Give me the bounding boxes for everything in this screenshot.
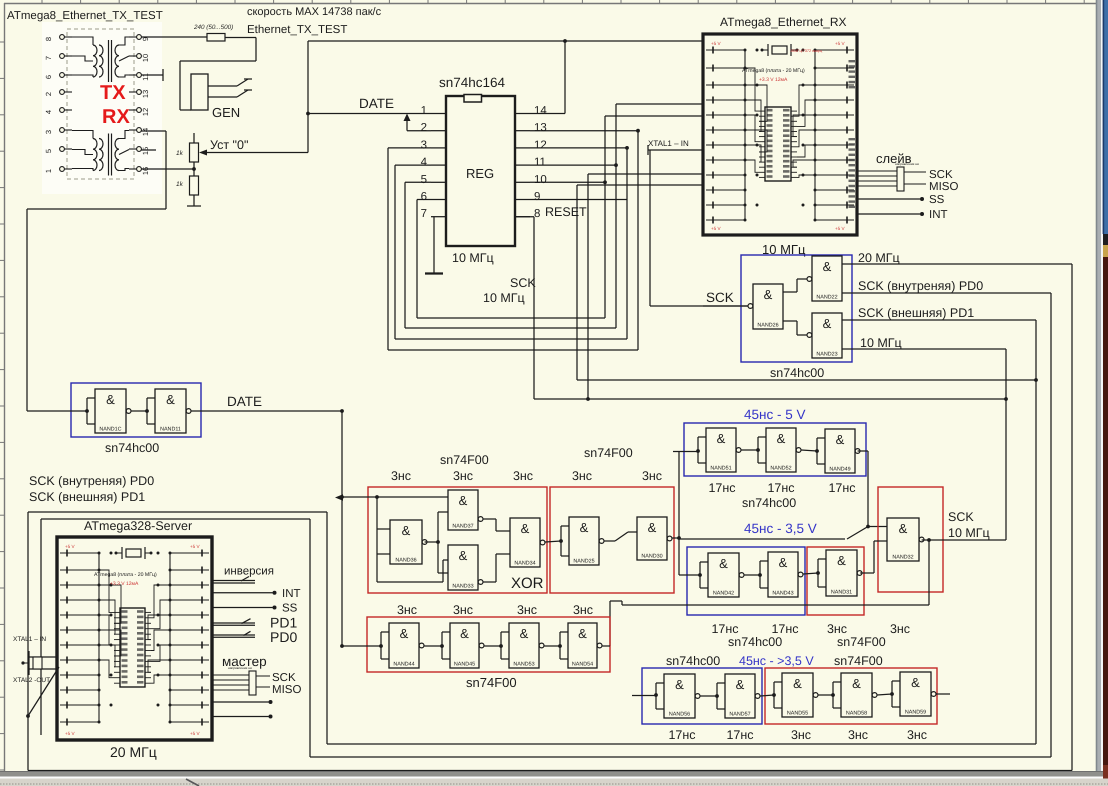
XOR bottom feedback wire [377, 560, 448, 582]
node loop 4 tap [603, 180, 607, 184]
wire node row 702 [212, 701, 269, 703]
node DATE branch [340, 409, 344, 413]
generator GEN [191, 74, 208, 110]
NAND37 output bubble [478, 517, 483, 522]
svg-text:INT: INT [929, 209, 948, 221]
svg-text:3нс: 3нс [572, 469, 592, 483]
wire 10MHz output [842, 349, 1006, 540]
svg-text:REG: REG [466, 166, 494, 181]
nand gate NAND25 [569, 517, 599, 565]
SPI connector J1 [857, 167, 926, 191]
svg-text:&: & [578, 626, 587, 641]
module box bottom red [765, 668, 937, 724]
wire into NAND44 [342, 645, 381, 647]
nand gate NAND26 [753, 284, 783, 329]
svg-text:RX: RX [102, 106, 130, 128]
wire into NAND42 [679, 574, 700, 576]
svg-text:sn74F00: sn74F00 [466, 675, 517, 690]
NAND45 input tie [442, 631, 450, 633]
wire NAND52 to NAND49 [801, 450, 817, 451]
wire 45-53 [484, 645, 501, 647]
wire resistor to GEN [180, 38, 256, 111]
GEN switch output 1 [208, 79, 252, 86]
NAND51 input tie [698, 436, 706, 438]
svg-text:NAND59: NAND59 [905, 710, 926, 716]
wire 20MHz output [842, 264, 1072, 771]
svg-text:&: & [459, 493, 468, 508]
svg-text:+5 V: +5 V [835, 226, 846, 231]
module box bottom blue [642, 668, 762, 724]
node loop 1 tap [636, 129, 640, 133]
svg-text:&: & [675, 677, 684, 692]
svg-text:&: & [106, 392, 115, 407]
svg-text:XTAL1 – IN: XTAL1 – IN [13, 636, 46, 643]
svg-text:+5 V: +5 V [711, 41, 722, 46]
wire crossbar y399 [534, 398, 1006, 400]
transformer RX windings [72, 131, 129, 176]
node crossbar y399 [1004, 397, 1008, 401]
svg-text:3: 3 [44, 130, 53, 134]
svg-text:3нс: 3нс [642, 469, 662, 483]
IC U1 sn74hc164 shift register [439, 75, 515, 265]
svg-text:NAND53: NAND53 [513, 662, 534, 668]
resistor R3 1k [187, 169, 201, 206]
routing loop PD0 inner [41, 519, 310, 757]
svg-text:NAND58: NAND58 [846, 711, 867, 717]
wire PD0 switch [212, 631, 255, 637]
svg-text:NAND32: NAND32 [892, 555, 913, 561]
svg-text:направление на: направление на [228, 666, 252, 670]
svg-text:&: & [520, 626, 529, 641]
wire DATE down to XOR and F00 row [341, 411, 343, 646]
wire NAND34 to NAND25 [545, 541, 561, 542]
wire NAND37 to NAND34 [483, 519, 510, 531]
svg-text:NAND43: NAND43 [772, 591, 793, 597]
svg-text:&: & [836, 432, 845, 447]
svg-text:&: & [899, 521, 908, 536]
NAND26 input bubble [748, 304, 753, 309]
nand gate NAND53 [509, 623, 539, 668]
wire NAND33 to NAND34 [483, 554, 510, 582]
svg-text:SCK (внешняя) PD1: SCK (внешняя) PD1 [858, 306, 974, 320]
svg-text:&: & [521, 521, 530, 536]
svg-text:SS: SS [929, 194, 945, 206]
svg-text:+5 V: +5 V [190, 731, 201, 736]
svg-text:sn74F00: sn74F00 [440, 453, 489, 467]
svg-text:инверсия: инверсия [224, 566, 274, 578]
svg-text:sn74hc00: sn74hc00 [742, 496, 796, 510]
svg-text:ATmega328-Server: ATmega328-Server [84, 519, 192, 533]
NAND52 input tie [758, 436, 766, 438]
svg-text:NAND56: NAND56 [669, 712, 690, 718]
svg-text:sn74hc00: sn74hc00 [666, 654, 720, 668]
wire 3.5V feed row [679, 538, 845, 540]
nand gate NAND42 [708, 553, 739, 597]
svg-text:NAND54: NAND54 [572, 662, 593, 668]
svg-text:4: 4 [421, 157, 428, 169]
wire into NAND1C [27, 410, 87, 412]
NAND25 input tie [561, 525, 569, 527]
nand gate NAND55 [782, 673, 813, 717]
svg-text:sn74hc164: sn74hc164 [439, 75, 506, 90]
GEN switch output 2 [208, 90, 252, 97]
svg-text:3нс: 3нс [890, 622, 910, 636]
wiper arrow wire [199, 150, 308, 156]
svg-text:PD0: PD0 [270, 629, 297, 645]
wire into NAND51 [673, 451, 698, 453]
nand gate NAND44 [389, 623, 419, 668]
svg-text:7: 7 [421, 208, 427, 220]
svg-text:NAND31: NAND31 [831, 590, 852, 596]
svg-text:15: 15 [141, 147, 150, 155]
svg-text:7: 7 [44, 56, 53, 60]
IC U3 ATmega328 MCU internals [60, 544, 209, 736]
svg-text:RESET: RESET [545, 205, 587, 219]
svg-text:NAND11: NAND11 [160, 427, 181, 433]
svg-text:11: 11 [141, 73, 150, 81]
svg-text:&: & [460, 626, 469, 641]
svg-text:XTAL2 -OUT: XTAL2 -OUT [13, 677, 50, 684]
wire NAND31 out to NAND32 [860, 541, 887, 573]
NAND31 input tie [818, 558, 826, 560]
svg-text:17нс: 17нс [767, 481, 794, 495]
ground below U1 [425, 217, 443, 274]
svg-text:&: & [764, 287, 773, 302]
feedback loop wire 2 (U1 out to in) [395, 148, 627, 339]
svg-text:NAND44: NAND44 [393, 662, 414, 668]
nand gate NAND32 [887, 518, 919, 561]
svg-text:SCK (внутреняя) PD0: SCK (внутреняя) PD0 [29, 474, 154, 488]
svg-text:17нс: 17нс [771, 622, 798, 636]
svg-text:NAND26: NAND26 [757, 323, 778, 329]
svg-text:12: 12 [534, 139, 547, 151]
svg-text:Ethernet_TX_TEST: Ethernet_TX_TEST [247, 24, 347, 36]
svg-text:2: 2 [44, 92, 53, 96]
svg-text:17нс: 17нс [711, 622, 738, 636]
wire into NAND56 [632, 695, 656, 697]
svg-text:10: 10 [141, 54, 150, 62]
module box 45ns-5V (blue) [684, 423, 866, 476]
svg-text:10 МГц: 10 МГц [483, 291, 525, 305]
svg-text:45нс - 5 V: 45нс - 5 V [744, 407, 805, 422]
wire NAND25 to NAND30 diagonal [604, 532, 637, 541]
svg-text:NAND23: NAND23 [816, 352, 837, 358]
NAND43 input tie [760, 560, 768, 562]
wire INT out [212, 592, 273, 594]
svg-text:3нс: 3нс [827, 622, 847, 636]
svg-text:NAND34: NAND34 [514, 561, 535, 567]
NAND49 input tie [817, 437, 825, 439]
svg-text:GEN: GEN [212, 105, 240, 120]
svg-text:8: 8 [44, 37, 53, 41]
module ATmega328-Server outer box [57, 537, 212, 740]
nand gate NAND56 [664, 674, 695, 718]
wire RX pin row to DATE chain (left route) [27, 131, 166, 411]
svg-text:SCK: SCK [948, 510, 974, 524]
wire NAND59 output [936, 693, 950, 695]
svg-text:16МГц/7372 кварц: 16МГц/7372 кварц [790, 49, 823, 53]
nand gate NAND33 [448, 545, 478, 590]
NAND55 input tie [774, 681, 782, 683]
svg-text:10 МГц: 10 МГц [452, 251, 494, 265]
svg-text:SCK: SCK [706, 290, 734, 305]
svg-text:&: & [823, 316, 832, 331]
nand gate NAND34 [510, 518, 540, 567]
svg-text:&: & [719, 556, 728, 571]
svg-text:13: 13 [534, 122, 547, 134]
feedback loop wire 4 (U1 out to in) [417, 182, 605, 318]
module box sn74hc00 SCK (blue) [741, 255, 852, 362]
wire NAND30 output to risers [672, 451, 681, 575]
wire XTAL1-IN stub to SCK gate [648, 145, 748, 306]
svg-text:+3.3 V 12мА: +3.3 V 12мА [110, 581, 139, 587]
svg-text:20 МГц: 20 МГц [858, 251, 900, 265]
svg-text:&: & [736, 677, 745, 692]
svg-text:10 МГц: 10 МГц [860, 336, 902, 350]
NAND23 input bubble [807, 333, 812, 338]
wire NAND54 output up [602, 645, 610, 647]
svg-text:10 МГц: 10 МГц [948, 526, 990, 540]
svg-text:NAND49: NAND49 [829, 467, 850, 473]
svg-text:NAND1C: NAND1C [99, 427, 121, 433]
node NAND32 input junction [866, 525, 870, 529]
svg-text:NAND25: NAND25 [573, 559, 594, 565]
NAND58 input tie [833, 681, 841, 683]
wire pin8 down to 10MHz bus [515, 217, 534, 399]
svg-text:TX: TX [100, 82, 126, 104]
NAND11 input tie [147, 397, 155, 399]
svg-text:14: 14 [141, 128, 150, 136]
svg-text:SS: SS [282, 603, 298, 615]
svg-text:SCK: SCK [510, 276, 536, 290]
svg-text:6: 6 [421, 191, 427, 203]
nand gate NAND30 [637, 517, 667, 560]
wire pin14 to top net [530, 113, 565, 115]
NAND54 input tie [560, 631, 568, 633]
svg-text:NAND37: NAND37 [452, 524, 473, 530]
svg-text:&: & [777, 431, 786, 446]
diagonal wire from server to bottom bus [28, 667, 59, 716]
RX block micro pin-name strip [849, 60, 856, 208]
svg-text:+5 V: +5 V [711, 226, 722, 231]
svg-text:3нс: 3нс [391, 469, 411, 483]
nand gate NAND54 [568, 623, 597, 668]
svg-text:&: & [166, 392, 175, 407]
wire NAND43 to NAND31 [803, 573, 818, 574]
svg-text:16: 16 [141, 167, 150, 175]
NAND22 input bubble [807, 277, 812, 282]
nand gate NAND59 [900, 672, 931, 716]
svg-text:sn74F00: sn74F00 [584, 446, 633, 460]
bus wire y770 [28, 770, 1072, 772]
node loop 2 tap [625, 146, 629, 150]
svg-text:Уст "0": Уст "0" [210, 138, 248, 152]
svg-text:NAND42: NAND42 [713, 591, 734, 597]
svg-text:5: 5 [421, 174, 427, 186]
NAND33 output bubble [478, 580, 483, 585]
svg-text:XTAL1 – IN: XTAL1 – IN [648, 139, 689, 148]
wire feedback y605 [610, 601, 929, 646]
module box block2 (red) [550, 487, 674, 593]
svg-text:+5 V: +5 V [65, 731, 76, 736]
NAND36 out branch [425, 512, 448, 573]
nand gate NAND22 [812, 256, 842, 301]
svg-text:3нс: 3нс [791, 728, 811, 742]
svg-text:ATmega8_Ethernet_TX_TEST: ATmega8_Ethernet_TX_TEST [7, 10, 163, 22]
svg-text:ATmega8 (плата - 20 МГц): ATmega8 (плата - 20 МГц) [94, 572, 157, 578]
node INT [273, 591, 277, 595]
svg-text:NAND51: NAND51 [710, 466, 731, 472]
crystal X2 left of server [23, 651, 57, 675]
svg-text:&: & [648, 520, 657, 535]
window chrome bottom edge [0, 772, 1108, 786]
feedback loop wire 1 (U1 out to in) [388, 131, 638, 350]
wire inversion switch [212, 577, 255, 584]
feedback loop wire 3 (U1 out to in) [405, 165, 616, 328]
wire DATE into pin1 [308, 113, 431, 115]
svg-text:INT: INT [282, 588, 301, 600]
svg-text:+3.3 V 12мА: +3.3 V 12мА [759, 77, 788, 83]
wire NAND32 output [922, 538, 1006, 605]
svg-text:NAND30: NAND30 [641, 554, 662, 560]
node diagonal junction [26, 714, 30, 718]
U1 pin stubs and numbers [421, 105, 548, 220]
wire 57-55 [760, 695, 774, 696]
svg-text:&: & [837, 553, 846, 568]
svg-text:&: & [717, 431, 726, 446]
wire INT with node [857, 213, 920, 215]
nand gate NAND57 [725, 674, 755, 718]
SPI connector J2 master [212, 671, 270, 695]
svg-text:ATmega8_Ethernet_RX: ATmega8_Ethernet_RX [720, 15, 847, 29]
svg-text:&: & [779, 555, 788, 570]
svg-text:NAND57: NAND57 [729, 712, 750, 718]
nand gate NAND51 [706, 428, 736, 472]
transformer left pins with numbers [44, 35, 72, 173]
wire pin9 RESET row [515, 199, 627, 201]
NAND56 input tie [656, 682, 664, 684]
svg-text:sn74F00: sn74F00 [834, 654, 883, 668]
svg-text:2: 2 [421, 122, 427, 134]
svg-text:10: 10 [534, 174, 547, 186]
transformer right pins with numbers [129, 35, 150, 176]
svg-text:17нс: 17нс [726, 728, 753, 742]
wire loop4 riser to RX block [605, 116, 703, 182]
svg-text:&: & [459, 548, 468, 563]
svg-text:12: 12 [141, 108, 150, 116]
svg-text:+5 V: +5 V [190, 544, 201, 549]
svg-text:NAND22: NAND22 [816, 295, 837, 301]
svg-text:4: 4 [44, 110, 53, 114]
IC U2 ATmega8 MCU internals [706, 41, 854, 231]
nand gate NAND52 [766, 428, 796, 472]
wire NAND49 output to NAND32 [858, 451, 887, 527]
nand gate NAND37 [448, 490, 478, 530]
svg-text:NAND52: NAND52 [770, 466, 791, 472]
svg-text:MISO: MISO [272, 684, 301, 696]
svg-text:45нс - >3,5 V: 45нс - >3,5 V [739, 654, 814, 668]
bus wire y744 [327, 743, 1036, 745]
wire RX pin stub [141, 149, 156, 151]
svg-text:240 (50...500): 240 (50...500) [193, 24, 233, 31]
transformer TX windings [72, 37, 129, 82]
wire top net to RX block [308, 41, 703, 153]
nand gate NAND58 [841, 673, 872, 717]
svg-text:sn74hc00: sn74hc00 [105, 441, 159, 455]
wire loop3 riser to RX block [616, 104, 703, 165]
module ATmega8_Ethernet_RX outer box [703, 34, 857, 235]
wire 44-45 [424, 645, 442, 647]
svg-text:3нс: 3нс [513, 469, 533, 483]
wire NAND51 to NAND52 [741, 449, 758, 451]
svg-text:sn74F00: sn74F00 [837, 635, 886, 649]
svg-text:sn74hc00: sn74hc00 [728, 635, 782, 649]
nand gate NAND23 [812, 313, 842, 358]
arrow marker at XOR input [335, 494, 343, 501]
wire 55-58 [818, 694, 833, 696]
NAND1C input tie [87, 397, 95, 399]
svg-text:6: 6 [44, 75, 53, 79]
wire transformer to divider junction [141, 168, 194, 170]
wire RX feed row 185 [577, 185, 703, 380]
nand gate NAND45 [450, 623, 479, 668]
svg-text:&: & [400, 626, 409, 641]
svg-text:3: 3 [421, 139, 427, 151]
svg-text:3нс: 3нс [453, 603, 473, 617]
module box 45ns-3.5V (blue) [687, 547, 805, 615]
wire NAND1C out to NAND11 [131, 410, 147, 412]
resistor R1 240 Ohm [207, 34, 225, 42]
svg-text:&: & [402, 523, 411, 538]
svg-text:5: 5 [44, 149, 53, 153]
wire SCK PD1 output [842, 320, 1036, 744]
module box sn74hc00 DATE (blue) [71, 383, 201, 437]
svg-text:13: 13 [141, 90, 150, 98]
svg-text:1: 1 [421, 105, 427, 117]
wire SCK input [703, 305, 748, 307]
window chrome right edge [1096, 0, 1108, 786]
node top net junctions [563, 39, 567, 43]
wire TX pin to resistor [141, 36, 207, 38]
svg-text:8: 8 [534, 208, 540, 220]
NAND44 input tie [381, 631, 389, 633]
node loop 3 tap [614, 163, 618, 167]
svg-text:&: & [793, 676, 802, 691]
svg-text:NAND36: NAND36 [395, 558, 416, 564]
node xtal [21, 661, 24, 664]
svg-text:XOR: XOR [511, 575, 544, 592]
svg-text:3нс: 3нс [453, 469, 473, 483]
nand gate NAND11 [155, 389, 186, 433]
node divider junction [192, 167, 196, 171]
svg-text:&: & [852, 676, 861, 691]
svg-text:SCK (внутреняя) PD0: SCK (внутреняя) PD0 [858, 279, 983, 293]
wire 53-54 [544, 645, 560, 647]
svg-text:+5 V: +5 V [835, 41, 846, 46]
bus wire y757 [310, 756, 1051, 758]
transformer module dashed outline [67, 29, 134, 179]
potentiometer R2 1k [190, 133, 199, 169]
svg-text:20 МГц: 20 МГц [110, 744, 157, 760]
svg-text:NAND45: NAND45 [454, 662, 475, 668]
svg-text:17нс: 17нс [708, 481, 735, 495]
terminator on pin 11 [141, 69, 163, 81]
NAND36 input wires [375, 495, 390, 582]
svg-text:&: & [823, 259, 832, 274]
svg-text:3нс: 3нс [848, 728, 868, 742]
svg-text:ATmega8 (плата - 20 МГц): ATmega8 (плата - 20 МГц) [742, 68, 805, 74]
NAND57 input tie [717, 682, 725, 684]
